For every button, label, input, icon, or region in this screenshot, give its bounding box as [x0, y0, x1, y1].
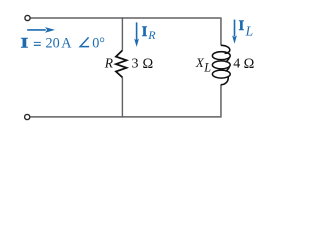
wire top from source terminal to inductor branch: [30, 17, 220, 19]
source current arrow (horizontal): [27, 29, 46, 31]
wire resistor branch lower: [121, 77, 123, 117]
inductor XL coil loop 3: [212, 70, 230, 78]
wire inductor branch lower: [220, 84, 222, 117]
angle symbol of source phasor: [80, 37, 89, 46]
wire resistor branch upper: [121, 17, 123, 50]
svg-text:L: L: [245, 24, 254, 39]
svg-text:Ω: Ω: [244, 56, 255, 72]
resistor R zigzag: [116, 50, 127, 77]
inductor XL exit hook: [221, 76, 228, 84]
svg-text:3: 3: [132, 57, 139, 72]
svg-text:4: 4: [233, 57, 240, 72]
svg-text:I: I: [21, 35, 29, 51]
arrow IL: [234, 20, 236, 37]
arrow IR: [136, 22, 138, 40]
svg-text:I: I: [142, 24, 148, 40]
svg-text:20A0°: 20A0°: [46, 36, 105, 52]
svg-text:L: L: [203, 61, 211, 75]
wire inductor branch upper: [220, 17, 222, 45]
terminal bottom-left: [25, 114, 30, 119]
svg-text:R: R: [104, 55, 114, 70]
svg-text:I: I: [239, 18, 245, 34]
inductor XL entry hook: [221, 45, 230, 53]
svg-text:Ω: Ω: [143, 56, 154, 72]
svg-text:R: R: [147, 28, 156, 42]
wire bottom return: [30, 116, 220, 118]
inductor XL coil loop 1: [212, 52, 230, 60]
inductor XL crossover 1-2: [225, 58, 229, 62]
terminal top-left: [25, 15, 30, 20]
inductor XL crossover 2-3: [225, 67, 229, 71]
svg-text:=: =: [33, 37, 41, 53]
inductor XL coil loop 2: [212, 61, 230, 69]
